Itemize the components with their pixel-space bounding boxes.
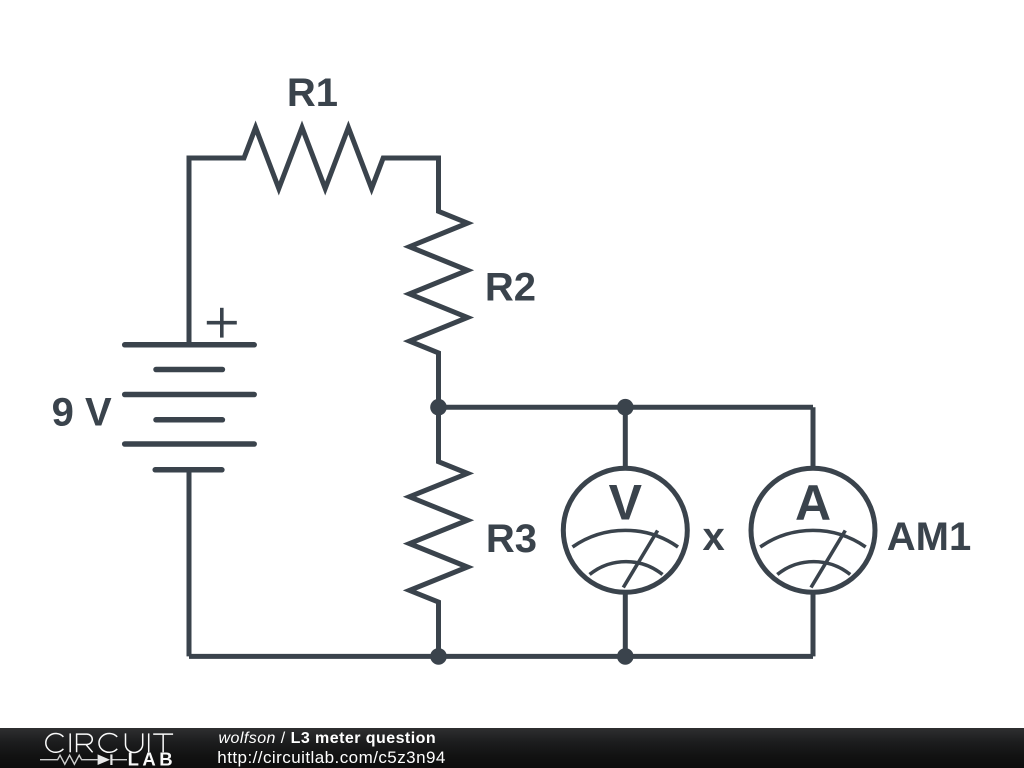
svg-text:x: x xyxy=(702,515,724,559)
wire: battery + terminal up and across to R1 xyxy=(189,158,244,345)
svg-text:R1: R1 xyxy=(287,71,338,115)
resistor R3 xyxy=(410,407,468,605)
C xyxy=(46,734,64,753)
wire: R1 to R2 top (corner) xyxy=(383,158,438,211)
svg-text:LAB: LAB xyxy=(128,748,177,768)
wire: battery - terminal down to bottom bus xyxy=(187,470,192,657)
footer url xyxy=(217,750,446,765)
svg-text:R3: R3 xyxy=(486,517,537,561)
svg-text:AM1: AM1 xyxy=(887,515,971,559)
wire: R2 bottom to node A xyxy=(436,353,441,407)
svg-text:9 V: 9 V xyxy=(52,391,112,435)
node C (bottom junction below R3) xyxy=(430,648,447,665)
resistor R2 xyxy=(410,208,468,356)
voltmeter x (meter body) xyxy=(563,468,687,592)
R xyxy=(77,733,93,752)
CircuitLab logo wordmark CIRCUIT (hand-drawn thin glyphs) xyxy=(0,728,220,768)
wire: ammeter bottom riser xyxy=(811,594,816,656)
resistor R1 xyxy=(241,128,386,189)
wire: R3 bottom to node C xyxy=(436,602,441,656)
wire: bottom bus xyxy=(189,654,813,659)
ammeter AM1 (meter body) xyxy=(751,468,875,592)
wire: top meter bus xyxy=(439,405,814,410)
U xyxy=(126,733,143,752)
svg-text:V: V xyxy=(609,475,643,531)
node B (dot above voltmeter) xyxy=(617,399,634,416)
node D (dot below voltmeter) xyxy=(617,648,634,665)
svg-text:R2: R2 xyxy=(485,266,536,310)
footer title: wolfson / L3 meter question xyxy=(219,731,437,746)
C xyxy=(99,734,117,753)
wire: drop to voltmeter top xyxy=(623,407,628,467)
I xyxy=(148,733,150,752)
battery V1 plates xyxy=(125,345,255,470)
wire: drop to ammeter top xyxy=(811,407,816,467)
I xyxy=(69,733,71,752)
svg-text:A: A xyxy=(795,475,831,531)
footer bar xyxy=(0,728,1024,768)
wire: voltmeter bottom xyxy=(623,594,628,656)
node A (junction R2/R3/top bus) xyxy=(430,399,447,416)
battery polarity + xyxy=(207,308,237,338)
T xyxy=(153,734,173,752)
logo mini-circuit: wire, resistor, diode xyxy=(40,755,127,764)
